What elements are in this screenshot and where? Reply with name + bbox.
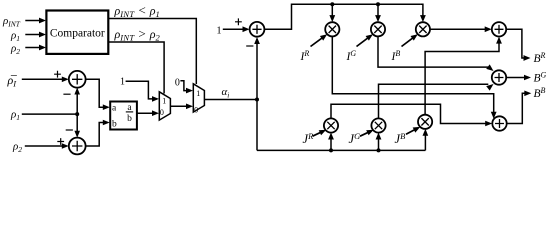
svg-text:BR: BR xyxy=(534,51,546,65)
multiplier I_G x (1-alpha) xyxy=(371,22,385,36)
wire rho_1 horizontal xyxy=(22,113,77,115)
arrow I_R into multiplier xyxy=(311,36,326,47)
multiplier I_R x (1-alpha) xyxy=(325,22,339,36)
wire comparator out2 to mux1 select xyxy=(108,42,164,94)
junction bus to J_G xyxy=(377,148,381,152)
svg-text:Comparator: Comparator xyxy=(50,27,105,39)
output adder BG xyxy=(492,70,506,84)
plus sign A1 input xyxy=(54,71,61,78)
adder A2 (rho_2 - rho_1) xyxy=(69,138,86,155)
adder A3 (1 - alpha) xyxy=(250,22,265,37)
svg-text:1: 1 xyxy=(162,97,166,106)
svg-text:IR: IR xyxy=(300,49,310,63)
wire down to I_R mult xyxy=(331,4,333,20)
wire I_G mult out to adder BG upper xyxy=(378,36,488,67)
wire rho_1 up to A1 minus xyxy=(76,90,78,115)
svg-text:ρ1: ρ1 xyxy=(10,109,20,123)
wire BR out xyxy=(506,29,528,58)
wire BG out xyxy=(506,77,529,79)
mux M1 trapezoid xyxy=(159,92,170,120)
svg-text:JG: JG xyxy=(349,131,361,146)
wire up to J_G mult xyxy=(378,135,380,151)
mux M2 trapezoid xyxy=(193,84,204,112)
wire rho_INT to comparator xyxy=(25,20,44,22)
svg-text:BB: BB xyxy=(534,86,546,100)
bottom alpha bus xyxy=(257,149,425,151)
svg-text:ρINT > ρ2: ρINT > ρ2 xyxy=(114,26,161,43)
wire constant 0 to mux2 input 1 xyxy=(180,81,191,91)
wire A3 out along top bus xyxy=(264,4,421,29)
wire J_R mult out to adder BB left xyxy=(331,104,490,123)
junction top bus to I_G mult xyxy=(376,2,380,6)
wire alpha up to adder A3 minus input xyxy=(256,39,258,100)
wire A1 out to divider a xyxy=(85,79,107,107)
svg-text:JB: JB xyxy=(395,131,406,146)
wire constant 1 to mux1 input 1 xyxy=(126,81,157,99)
svg-text:ρINT < ρ1: ρINT < ρ1 xyxy=(114,2,160,19)
plus sign A3 xyxy=(235,18,242,25)
wire rho_2 to comparator xyxy=(25,47,44,49)
plus sign A2 input xyxy=(57,138,64,145)
svg-text:ρ2: ρ2 xyxy=(12,141,22,155)
svg-text:αi: αi xyxy=(222,86,230,100)
svg-text:JR: JR xyxy=(303,131,315,146)
arrow I_G into multiplier xyxy=(357,36,371,47)
wire divider out to mux1 input 0 xyxy=(137,112,157,114)
svg-text:1: 1 xyxy=(196,89,200,98)
svg-text:IG: IG xyxy=(346,49,357,63)
svg-text:b: b xyxy=(112,120,117,130)
svg-text:0: 0 xyxy=(194,105,198,114)
junction alpha split xyxy=(255,98,259,102)
svg-text:ρINT: ρINT xyxy=(2,15,21,29)
wire up to J_R mult xyxy=(330,135,332,151)
svg-text:1: 1 xyxy=(216,25,221,36)
multiplier J_R x alpha xyxy=(324,118,338,132)
svg-text:BG: BG xyxy=(534,71,547,85)
svg-text:1: 1 xyxy=(120,76,125,87)
wire down to I_G mult xyxy=(377,4,379,20)
adder A1 (rho_bar_I - rho_1) xyxy=(69,71,86,88)
wire rho_1 down to A2 minus xyxy=(76,114,78,136)
wire I_B mult out to adder BR xyxy=(430,28,490,30)
svg-text:ρ1: ρ1 xyxy=(10,29,20,43)
svg-text:ρ2: ρ2 xyxy=(10,42,20,56)
bus corner up to J_B mult xyxy=(424,131,426,151)
minus sign A3 xyxy=(246,45,253,47)
wire I_R mult out to adder BB top xyxy=(332,36,493,112)
minus sign A1 xyxy=(63,93,70,95)
svg-text:b: b xyxy=(127,114,132,124)
wire 1 to adder A3 xyxy=(223,28,248,30)
arrow J_B into multiplier xyxy=(406,128,418,134)
output adder BR xyxy=(492,22,506,36)
wire J_G mult out to adder BG lower xyxy=(379,84,489,119)
svg-text:IB: IB xyxy=(391,49,401,63)
arrow J_R into multiplier xyxy=(313,131,325,136)
multiplier I_B x (1-alpha) xyxy=(416,22,430,36)
arrow J_G into multiplier xyxy=(360,131,372,136)
divider box a/b xyxy=(110,102,137,130)
multiplier J_B x alpha xyxy=(418,115,432,129)
wire alpha_i from mux2 xyxy=(204,99,257,101)
svg-text:0: 0 xyxy=(175,77,180,88)
wire A2 out to divider b xyxy=(85,123,107,147)
wire BB out xyxy=(507,93,530,123)
multiplier J_G x alpha xyxy=(371,118,385,132)
wire alpha down to bottom bus xyxy=(256,100,258,151)
wire rho_2 to adder A2 xyxy=(25,145,67,147)
junction bus to J_R xyxy=(329,148,333,152)
wire rho_bar_I to adder A1 xyxy=(22,78,67,80)
svg-text:ρ̅I: ρ̅I xyxy=(7,73,18,89)
comparator box xyxy=(46,11,108,54)
output adder BB xyxy=(492,116,506,130)
svg-text:0: 0 xyxy=(160,108,164,117)
junction top bus to I_R mult xyxy=(330,2,334,6)
arrow I_B into multiplier xyxy=(402,36,416,47)
wire comparator out1 to mux2 select xyxy=(108,19,196,85)
wire rho_1 to comparator xyxy=(25,34,44,36)
wire top bus corner down to I_B mult xyxy=(421,4,423,20)
wire mux1 out to mux2 input 0 xyxy=(170,105,191,107)
junction rho_1 split xyxy=(75,112,79,116)
minus sign A2 xyxy=(66,129,73,131)
wire J_B mult out to adder BR bottom xyxy=(425,39,499,115)
